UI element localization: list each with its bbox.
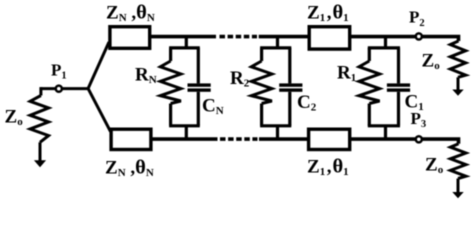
svg-text:Z1,θ1: Z1,θ1 bbox=[307, 2, 349, 25]
svg-text:Z1,θ1: Z1,θ1 bbox=[307, 155, 349, 178]
